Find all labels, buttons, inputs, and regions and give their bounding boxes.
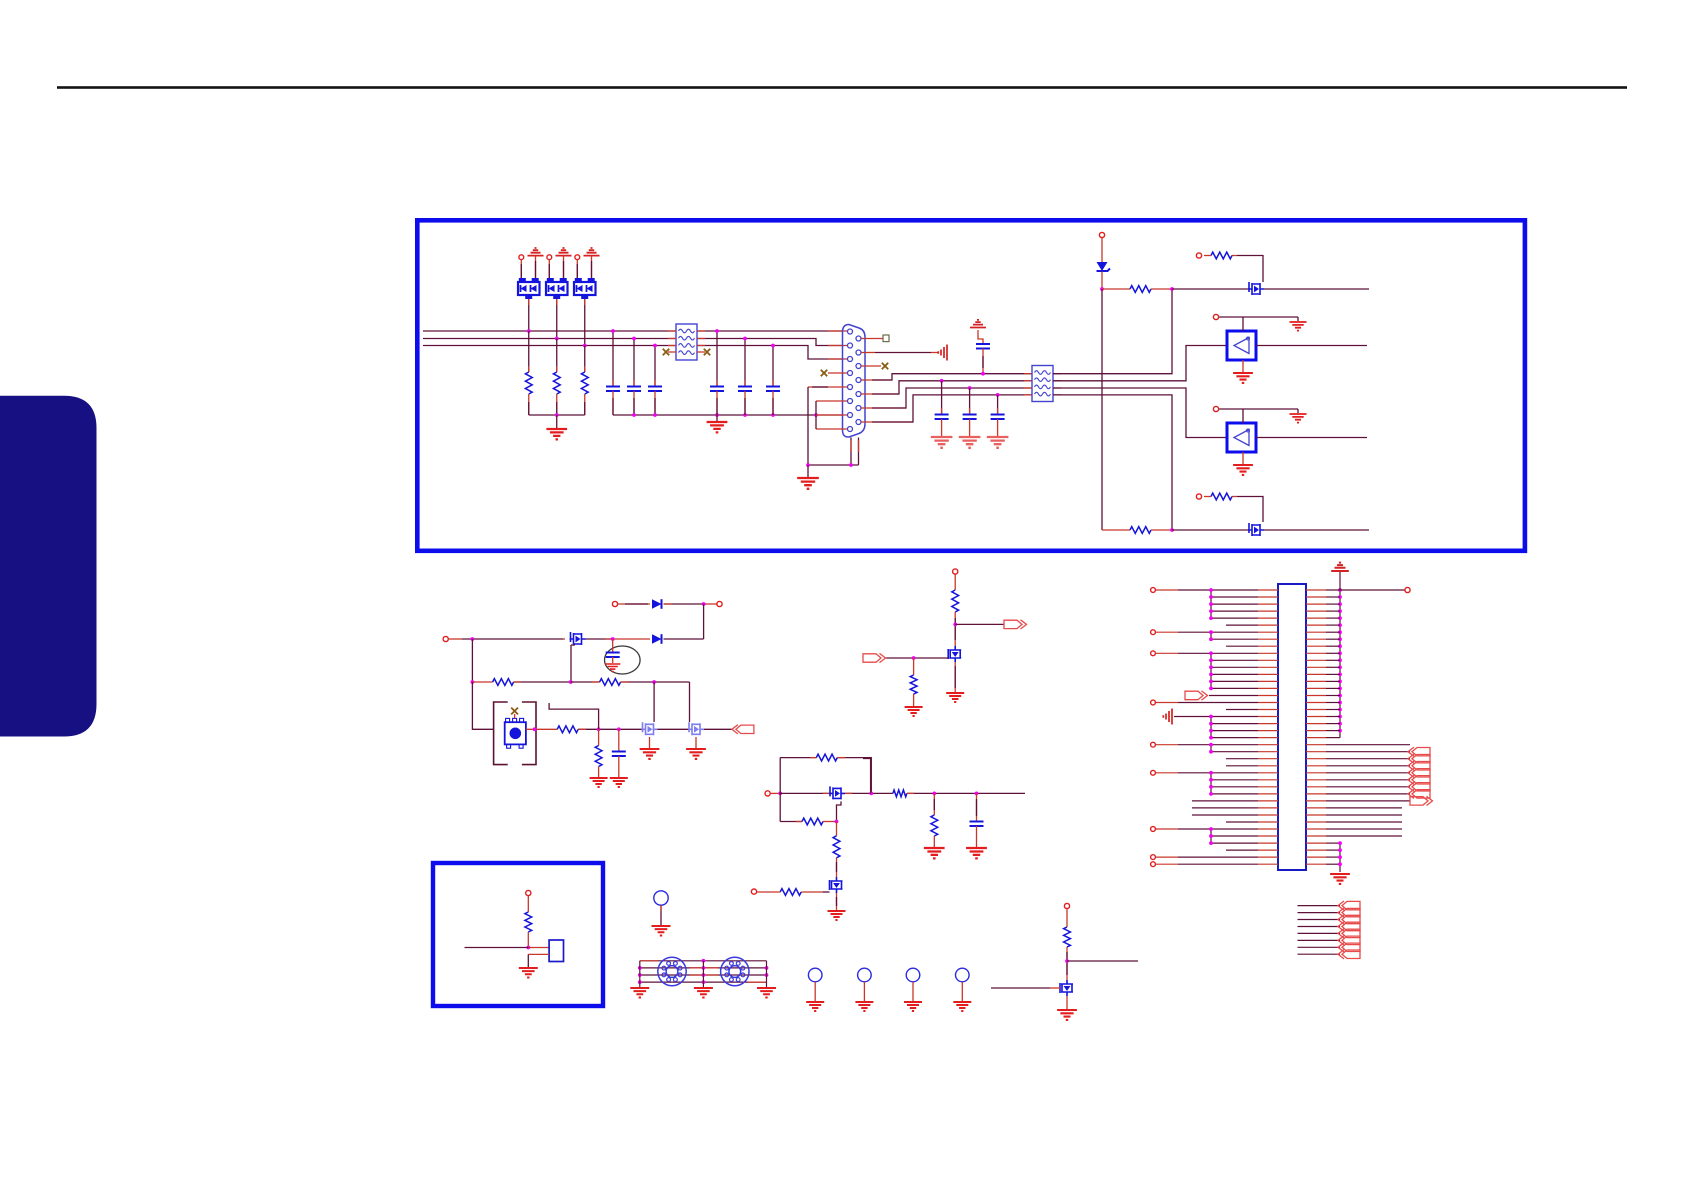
node J2 rbus <box>1338 609 1342 613</box>
terminal J2 L27 <box>1151 770 1156 775</box>
wire res bottom 3 <box>584 394 586 415</box>
terminal P3 <box>575 255 580 260</box>
wire J2 L38 <box>1226 849 1258 851</box>
node J2 group <box>1209 616 1213 620</box>
diode pack D2 <box>546 282 568 295</box>
wire DIN gnd <box>639 961 641 987</box>
wire M9 gnd <box>1066 996 1068 1009</box>
wire M2 out <box>1264 529 1369 531</box>
wire T6 <box>770 792 780 794</box>
transistor Q1 <box>570 632 586 645</box>
wire DIN red bits <box>640 961 767 982</box>
ground cap3 1 <box>931 437 953 448</box>
node bus3 pack <box>583 344 587 348</box>
node J2 rbus <box>1338 595 1342 599</box>
transistor M6 <box>830 877 843 893</box>
wire M7 gnd <box>954 662 956 692</box>
wire J2 R27 <box>1326 772 1410 774</box>
transistor M4 <box>688 722 704 735</box>
wire R3 nc <box>861 365 881 367</box>
wire comp pin2 <box>528 953 549 955</box>
connector J2 <box>1278 584 1306 870</box>
node rowA res <box>1170 287 1174 291</box>
terminal J2 L17 <box>1151 700 1156 705</box>
wire cap3 drop 2 <box>969 388 971 414</box>
net label J2 row16 <box>1185 691 1203 700</box>
ground H3 <box>904 1002 922 1011</box>
resistor R22 <box>1102 529 1130 531</box>
wire terminal 3 <box>576 260 578 282</box>
terminal J2 L40 <box>1151 862 1156 867</box>
wire J2 rbus top <box>1339 572 1341 590</box>
wire choke2 right stubs <box>1053 374 1061 395</box>
node J2 group <box>1209 609 1213 613</box>
wire m3-m4 <box>658 728 690 730</box>
wire Rv2 drop <box>933 793 935 815</box>
ground H2 <box>855 1002 873 1011</box>
wire J2 R4 <box>1326 610 1340 612</box>
wire top res right <box>837 758 871 794</box>
node cap rail <box>715 413 719 417</box>
wire pack drop 1 <box>528 299 530 331</box>
power flag J2 top <box>1331 563 1349 571</box>
ground DIN <box>630 988 649 998</box>
resistor R21 <box>1102 288 1130 290</box>
pin R6 <box>856 406 861 411</box>
ground U2 <box>1233 465 1253 475</box>
wire M4 gnd <box>695 737 697 748</box>
wire J2 R33 <box>1326 814 1402 816</box>
wire U1 power <box>1219 317 1298 331</box>
node bus1 cap2 <box>715 329 719 333</box>
wire J2 R19 <box>1326 716 1340 718</box>
wire to fet M2 <box>1172 529 1248 531</box>
node J2 rbus <box>1338 687 1342 691</box>
wire bus3 <box>423 346 842 360</box>
wire rowB right <box>1053 346 1227 381</box>
wire stack 7 <box>1298 946 1341 948</box>
capacitor C13 <box>648 387 662 392</box>
wire J2 R22 <box>1326 737 1340 739</box>
wire cap3 bot 3 <box>997 419 999 436</box>
wire DIN lines <box>640 961 767 982</box>
node bus3 cap2 <box>771 344 775 348</box>
wire J2 R26 <box>1326 765 1410 767</box>
node cap rail <box>632 413 636 417</box>
wire J2 R3 <box>1326 603 1340 605</box>
wire J2 L34 <box>1226 821 1258 823</box>
wire J2 right bus <box>1339 590 1341 738</box>
wire res bottom 1 <box>528 394 530 415</box>
frame small box <box>433 863 603 1006</box>
node J2 group <box>1209 588 1213 592</box>
battery holder BT1 <box>494 702 508 765</box>
wire J2 L4 <box>1211 610 1258 612</box>
wire J2 L27 <box>1156 772 1178 774</box>
ground M9 <box>1057 1010 1077 1020</box>
ellipse battery cell <box>605 646 641 674</box>
wire flag 3 <box>591 256 593 282</box>
resistor R53 <box>802 818 823 825</box>
ground R56 <box>924 848 945 858</box>
wire J2 L23 <box>1156 744 1178 746</box>
wire shell gnd <box>807 465 809 477</box>
header rule <box>57 86 1627 89</box>
terminal P2 <box>547 255 552 260</box>
wire J2 R32 <box>1326 807 1402 809</box>
wire terminal 2 <box>548 260 550 282</box>
wire J2 L20 <box>1211 723 1258 725</box>
terminal T9 <box>1064 903 1069 908</box>
capacitor C7 <box>612 752 626 757</box>
wire J2 R36 <box>1326 835 1402 837</box>
node bus2 cap1 <box>632 337 636 341</box>
capacitor C23 <box>766 387 780 392</box>
node J2 group <box>1209 658 1213 662</box>
wire T5 <box>954 574 956 590</box>
wire J2 R21 <box>1326 730 1340 732</box>
frame border <box>417 220 1525 551</box>
wire main row <box>780 792 829 794</box>
choke L1 <box>676 324 697 360</box>
terminal J2 L10 <box>1151 651 1156 656</box>
node bus3 cap1 <box>653 344 657 348</box>
ground U3 <box>519 968 538 978</box>
wire J2 R40 <box>1326 863 1340 865</box>
ground R34 <box>590 778 608 787</box>
net label J2 R25 <box>1412 755 1430 763</box>
net label J2 R26 <box>1412 762 1430 771</box>
buffer U2 <box>1227 423 1256 452</box>
wire J2 R15 <box>1326 687 1340 689</box>
wire res drop 3 <box>584 346 586 373</box>
terminal T7 <box>751 889 756 894</box>
net label J2 R30 <box>1412 790 1430 798</box>
node J2 rbus <box>1338 651 1342 655</box>
wire terminal 1 <box>520 260 522 282</box>
node J2 group <box>1209 595 1213 599</box>
node J2 rbus <box>1338 602 1342 606</box>
wire J2 R34 <box>1326 821 1402 823</box>
wire J2 group 35-37 <box>1210 829 1212 843</box>
wire rowD right <box>1053 395 1172 530</box>
node DIN <box>702 959 706 963</box>
wire J2 group 27-30 <box>1210 773 1212 794</box>
chassis ground R2 <box>938 345 947 361</box>
resistor R11 <box>525 372 532 394</box>
wire J2 L16 <box>1209 695 1258 697</box>
wire to fet M1 <box>1172 288 1248 290</box>
wire pack drop 3 <box>584 299 586 346</box>
wire R2 gnd <box>861 352 875 354</box>
hole H1 <box>808 968 822 982</box>
wire cap1 bot 1 <box>612 391 614 415</box>
node R41 <box>953 623 957 627</box>
node DIN <box>702 966 706 970</box>
resistor R52 <box>893 790 907 797</box>
node J2 group <box>1209 771 1213 775</box>
power flag FL2 <box>556 248 572 256</box>
hole H3 <box>906 968 920 982</box>
wire row out <box>1067 960 1138 962</box>
node J2 rbus <box>1338 623 1342 627</box>
wire J2 L32 <box>1192 807 1258 809</box>
node J2 rbus <box>1338 673 1342 677</box>
node J2 group <box>1209 834 1213 838</box>
wire M6 gnd <box>836 893 838 910</box>
capacitor C21 <box>710 387 724 392</box>
chapter tab <box>0 396 97 737</box>
wire rowA right <box>1053 289 1172 374</box>
wire DIN gnd <box>766 961 768 987</box>
wire J2 R10 <box>1326 652 1340 654</box>
resistor R56 <box>931 815 938 836</box>
wire J2 R29 <box>1326 786 1410 788</box>
node DIN <box>638 980 642 984</box>
net label IN1 <box>863 654 881 662</box>
wire drop stub <box>863 758 871 760</box>
node J2 bbus <box>1338 841 1342 845</box>
wire M9 gate <box>1050 987 1060 989</box>
wire J2 L40 <box>1156 863 1178 865</box>
wire M1 out <box>1264 288 1369 290</box>
chassis ground J2 <box>1163 709 1172 725</box>
wire cap3 drop 3 <box>997 395 999 414</box>
node cap rail <box>814 413 818 417</box>
wire drop left <box>870 759 872 794</box>
wire J2 R1 out <box>1326 589 1405 591</box>
wire J2 R2 <box>1326 596 1340 598</box>
wire row2 <box>448 638 462 640</box>
wire J2 L37 <box>1211 842 1258 844</box>
wire J2 L17 <box>1156 702 1178 704</box>
node J2 rbus <box>1338 694 1342 698</box>
node DIN <box>638 973 642 977</box>
wire stack 2 <box>1298 912 1341 914</box>
ground DIN <box>757 988 776 998</box>
resistor R55 <box>780 889 801 896</box>
wire cap2 bot 2 <box>744 391 746 415</box>
node battery out <box>533 727 537 731</box>
wire Rv drop <box>598 729 600 745</box>
wire J2 group 1-5 <box>1210 590 1212 618</box>
power flag FL1 <box>528 248 544 256</box>
wire J2 R12 <box>1326 666 1340 668</box>
pin L3 <box>848 357 853 362</box>
net label stack 7 <box>1342 943 1360 951</box>
node J2 group <box>1209 651 1213 655</box>
terminal J2 L7 <box>1151 630 1156 635</box>
node J2 rbus <box>1338 729 1342 733</box>
transistor M5 <box>829 786 845 799</box>
ground U1 top <box>1290 322 1307 331</box>
diode D4 <box>652 599 662 609</box>
wire flag 2 <box>563 256 565 282</box>
net label J2 R27 <box>1412 769 1430 777</box>
pin L2 <box>848 343 853 348</box>
wire row4 to choke2 <box>861 421 913 423</box>
capacitor C8 <box>970 822 984 827</box>
pin L5 <box>848 385 853 390</box>
node pack rail <box>555 413 559 417</box>
node cap rail <box>771 413 775 417</box>
wire R1 term <box>861 338 883 340</box>
wire J2 L14 <box>1211 680 1258 682</box>
ground H1 <box>806 1002 824 1011</box>
wire J2 group 23-24 <box>1210 745 1212 752</box>
net label J2 R28 <box>1412 776 1430 784</box>
node J2 rbus <box>1338 722 1342 726</box>
ground cap rail <box>707 422 728 432</box>
wire H3 <box>912 982 914 1001</box>
wire row1b <box>664 603 704 605</box>
node row cap3 <box>996 393 1000 397</box>
wire C8 gnd <box>976 826 978 847</box>
wire stack 6 <box>1298 939 1341 941</box>
node J2 group <box>1209 722 1213 726</box>
no-connect choke1 left <box>663 349 669 355</box>
wire res bottom 2 <box>556 394 558 415</box>
pin R5 <box>856 392 861 397</box>
ground M4 <box>686 749 706 759</box>
wire TVS vertical <box>1101 289 1103 530</box>
wire U1 in <box>1256 345 1367 347</box>
wire J2 R38 <box>1326 849 1340 851</box>
node gate join <box>835 820 839 824</box>
node row4 r <box>597 727 601 731</box>
resistor R61 <box>525 912 532 932</box>
wire J2 L8 <box>1211 638 1258 640</box>
wire J2 L3 <box>1211 603 1258 605</box>
wire J2 R35 <box>1326 828 1402 830</box>
net label J2 R24 <box>1412 748 1430 756</box>
net label stack 4 <box>1342 922 1360 931</box>
wire DIN gnd <box>702 961 704 987</box>
terminal T8 <box>526 890 531 895</box>
capacitor C22 <box>738 387 752 392</box>
terminal TVS <box>1099 232 1104 237</box>
pin R2 <box>856 350 861 355</box>
node J2 group <box>1209 785 1213 789</box>
node row4 c <box>617 727 621 731</box>
wire R54 drop <box>836 822 838 836</box>
wire J2 L26 <box>1226 765 1258 767</box>
wire TVS bottom <box>1101 272 1103 290</box>
wire battery out <box>526 728 557 730</box>
wire J2 L21 <box>1211 730 1258 732</box>
wire R62 out <box>1066 947 1068 980</box>
resistor R54 <box>833 836 840 858</box>
buzzer LS0 <box>654 891 668 905</box>
node J2 group <box>1209 743 1213 747</box>
resistor R42 <box>910 675 917 694</box>
wire T8 <box>527 896 529 912</box>
wire J2 L18 <box>1226 709 1258 711</box>
resistor R51 <box>816 754 837 761</box>
wire M4 gate <box>689 682 691 722</box>
wire row3d <box>621 681 690 683</box>
wire R41 out <box>954 612 956 646</box>
ground U2 top <box>1290 414 1307 423</box>
diode D5 <box>652 634 662 644</box>
node row1 <box>702 602 706 606</box>
capacitor C32 <box>963 415 977 420</box>
wire Cv gnd <box>618 756 620 777</box>
node J2 rbus <box>1338 665 1342 669</box>
resistor R33 <box>557 726 578 733</box>
wire J2 R13 <box>1326 673 1340 675</box>
ground cap3 2 <box>959 437 981 448</box>
terminal J2 L23 <box>1151 742 1156 747</box>
capacitor C11 <box>606 387 620 392</box>
wire M6 gate <box>822 891 829 893</box>
node J2 group <box>1209 736 1213 740</box>
wire J2 L25 <box>1226 758 1258 760</box>
node row cap1 <box>940 379 944 383</box>
wire J2 L5 <box>1211 617 1258 619</box>
wire cap2 bot 1 <box>716 391 718 415</box>
pin L7 <box>848 413 853 418</box>
wire stack 4 <box>1298 926 1341 928</box>
wire shell drop <box>808 387 859 465</box>
node J2 group <box>1209 602 1213 606</box>
choke L2 <box>1032 366 1053 402</box>
terminal row1 left <box>612 601 617 606</box>
terminal J2 R1 <box>1405 587 1410 592</box>
transistor M9 <box>1060 980 1073 996</box>
wire H1 <box>814 982 816 1001</box>
component U3 <box>549 940 563 962</box>
wire H2 <box>863 982 865 1001</box>
node rowD res <box>1170 528 1174 532</box>
net label stack 1 <box>1342 901 1360 909</box>
node J2 bbus <box>1338 862 1342 866</box>
wire cap3 bot 2 <box>969 419 971 436</box>
wire cap1 drop 1 <box>612 331 614 386</box>
wire top res left <box>780 757 816 759</box>
resistor R62 <box>1064 927 1071 947</box>
wire J2 R11 <box>1326 659 1340 661</box>
ground cap3 3 <box>987 437 1009 448</box>
wire R56 gnd <box>933 836 935 847</box>
wire R61 out <box>527 932 529 948</box>
node M7 gate <box>912 656 916 660</box>
wire J2 L36 <box>1211 835 1258 837</box>
wire U2 gnd stem <box>1242 452 1244 464</box>
node J2 group <box>1209 665 1213 669</box>
node J2 group <box>1209 750 1213 754</box>
node J2 group <box>1209 827 1213 831</box>
wire pin stubs left <box>828 331 848 359</box>
wire J2 group 7-8 <box>1210 632 1212 639</box>
wire J2 L24 <box>1211 751 1258 753</box>
wire Q1 out <box>586 638 613 640</box>
wire U1 gnd stem <box>1242 360 1244 372</box>
hole H4 <box>956 968 970 982</box>
node J2 rbus <box>1338 616 1342 620</box>
wire cap2 drop 3 <box>772 346 774 387</box>
terminal P1 <box>519 255 524 260</box>
wire M2 gate <box>1237 497 1263 523</box>
wire J2 L13 <box>1211 673 1258 675</box>
transistor M2 <box>1248 523 1264 536</box>
wire J2 R20 <box>1326 723 1340 725</box>
wire J2 L28 <box>1211 779 1258 781</box>
node J2 group <box>1209 687 1213 691</box>
net label OUT1 <box>1004 620 1022 628</box>
wire J2 R39 <box>1326 856 1340 858</box>
ground H4 <box>953 1002 971 1011</box>
